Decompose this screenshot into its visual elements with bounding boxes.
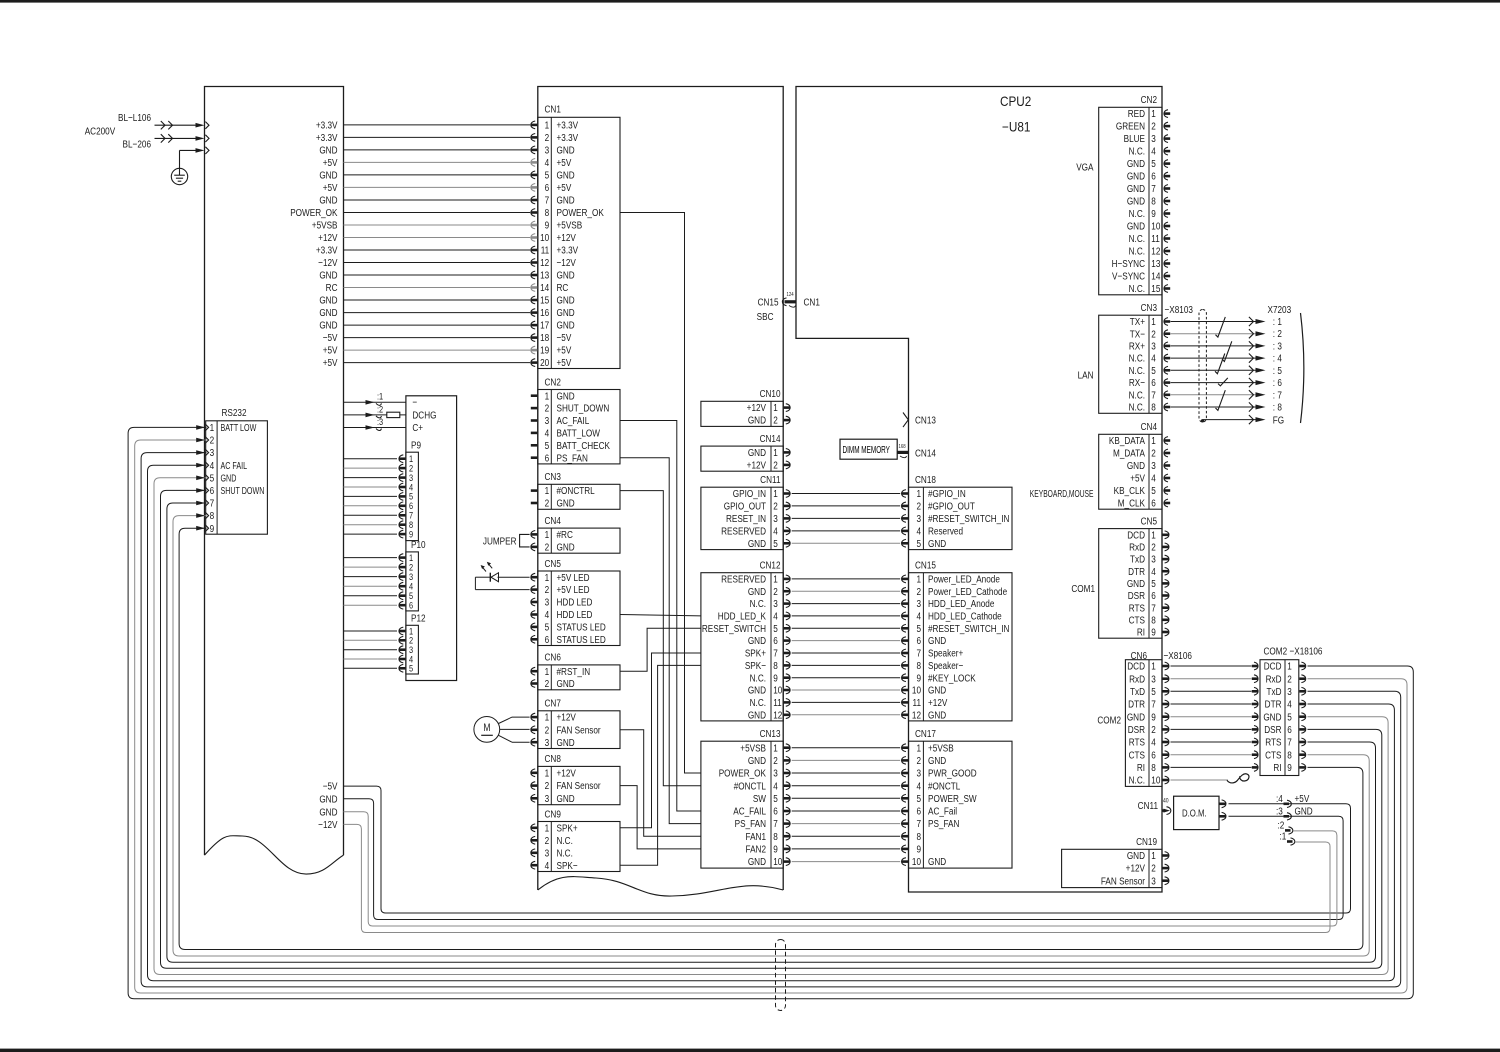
svg-text:9: 9 [916,842,921,854]
svg-text:PWR_GOOD: PWR_GOOD [928,767,977,779]
connector CN12 (harness right, 12-pin) [701,558,790,720]
svg-text:GND: GND [1127,157,1145,169]
svg-text:3: 3 [1151,553,1156,565]
wires CN6 to COM2 X18106 [1171,666,1252,767]
svg-text:N.C.: N.C. [557,846,573,858]
svg-text:CN18: CN18 [915,473,936,485]
svg-text:V−SYNC: V−SYNC [1112,270,1145,282]
svg-text:GPIO_OUT: GPIO_OUT [724,500,766,512]
svg-text:N.C.: N.C. [1129,245,1145,257]
svg-text:GND: GND [748,634,766,646]
svg-text:: 2: : 2 [1273,327,1282,339]
svg-text:2: 2 [773,585,778,597]
svg-text:17: 17 [540,319,549,331]
connector CN5 COM1 (SBC, 9-pin) [1099,514,1169,638]
svg-text:2: 2 [1151,447,1156,459]
svg-text:168: 168 [899,444,906,451]
svg-text:2: 2 [773,754,778,766]
svg-text:−X18106: −X18106 [1290,644,1323,656]
board-to-board link CN15 SBC to CN1 [757,292,820,322]
svg-text:6: 6 [773,634,778,646]
svg-text:X7203: X7203 [1268,303,1292,315]
svg-text:3: 3 [916,597,921,609]
svg-text:FAN Sensor: FAN Sensor [1101,874,1145,886]
svg-text:5: 5 [210,471,215,483]
svg-text:GND: GND [557,319,575,331]
svg-text:6: 6 [545,633,550,645]
svg-text:9: 9 [773,842,778,854]
external pin :1 [1280,829,1295,845]
svg-text:CN15: CN15 [758,295,779,307]
svg-text:CN3: CN3 [1141,301,1157,313]
svg-text:2: 2 [916,754,921,766]
bundle wire RS232 pin9 to X18106 pin9 [179,528,1363,949]
svg-text:3: 3 [1151,459,1156,471]
svg-text:RxD: RxD [1129,540,1145,552]
svg-text:PS_FAN: PS_FAN [557,451,589,463]
svg-text:5: 5 [1287,710,1292,722]
svg-text:POWER_OK: POWER_OK [557,206,605,218]
svg-text:N.C.: N.C. [750,696,766,708]
svg-text:+3.3V: +3.3V [316,244,338,256]
svg-text::1: :1 [377,391,383,402]
svg-text:CN5: CN5 [1141,514,1157,526]
svg-text:−: − [412,396,417,408]
bundle wire RS232 pin8 to X18106 pin8 [173,516,1369,956]
svg-text:8: 8 [773,830,778,842]
svg-text:6: 6 [409,600,413,611]
svg-text:3: 3 [545,736,550,748]
svg-text:11: 11 [1151,232,1159,244]
svg-text:DIMM MEMORY: DIMM MEMORY [843,443,891,455]
svg-text:8: 8 [1151,401,1156,413]
svg-text:+5VSB: +5VSB [740,741,766,753]
svg-text:1: 1 [1287,660,1292,672]
LED symbol on CN5 pins 1-2 [475,562,529,590]
svg-text:5: 5 [773,537,778,549]
bundle wire RS232 pin5 to X18106 pin5 [154,478,1388,975]
svg-text:4: 4 [1151,565,1156,577]
svg-text:: 3: : 3 [1273,339,1282,351]
svg-text:4: 4 [545,156,550,168]
svg-text:124: 124 [787,292,794,299]
svg-text:SPK+: SPK+ [745,647,767,659]
svg-text:1: 1 [916,741,921,753]
svg-text:1: 1 [1151,849,1156,861]
svg-text:4: 4 [1151,145,1156,157]
svg-text:5: 5 [1151,364,1156,376]
svg-text:GND: GND [1127,195,1145,207]
svg-text:4: 4 [210,459,215,471]
svg-text:9: 9 [916,671,921,683]
bundle wire RS232 pin3 to X18106 pin3 [141,453,1401,987]
svg-text:7: 7 [916,817,921,829]
svg-text:10: 10 [912,684,921,696]
svg-text:10: 10 [773,684,782,696]
svg-text:CPU2: CPU2 [1000,94,1031,109]
svg-text:+12V: +12V [557,231,577,243]
svg-text:DSR: DSR [1128,589,1145,601]
svg-text:20: 20 [540,356,549,368]
svg-text:BL−L106: BL−L106 [118,111,151,123]
connector CN8 (harness side, 3-pin fan) [531,752,620,805]
svg-text:1: 1 [545,821,550,833]
fan motor symbol M at CN7 [474,717,530,743]
svg-text:: 7: : 7 [1273,388,1282,400]
svg-text:HDD_LED_Anode: HDD_LED_Anode [928,597,994,609]
connector CN17 (SBC, 10-pin) [902,727,1012,868]
svg-text:CN13: CN13 [915,413,936,425]
svg-text:CN11: CN11 [1138,799,1158,811]
svg-text:6: 6 [1151,589,1156,601]
svg-text:11: 11 [773,696,781,708]
svg-text:: 5: : 5 [1273,364,1282,376]
svg-text:LAN: LAN [1078,368,1094,380]
cable harness box (open bottom with break wave) [538,87,783,897]
svg-text:#RESET_SWITCH_IN: #RESET_SWITCH_IN [928,622,1010,634]
svg-text:M: M [483,722,490,734]
svg-text:GND: GND [319,792,337,804]
svg-text:8: 8 [1151,195,1156,207]
svg-text:16: 16 [540,306,549,318]
svg-text:5: 5 [916,622,921,634]
svg-text:+3.3V: +3.3V [316,131,338,143]
svg-text:3: 3 [773,767,778,779]
svg-text:#ONCTRL: #ONCTRL [557,484,595,496]
wires CN13 to CN17 pins 1-10 [792,748,901,862]
svg-text:AC200V: AC200V [85,125,116,137]
svg-text:19: 19 [540,344,549,356]
connector COM2 -X18106 (external, 9-pin) [1252,644,1323,775]
svg-text:+5VSB: +5VSB [928,741,954,753]
svg-text:SPK+: SPK+ [557,821,579,833]
SBC connector label CN13 with chevron [903,413,936,428]
svg-text:6: 6 [1151,170,1156,182]
svg-text:+12V: +12V [928,696,948,708]
svg-text:RED: RED [1128,107,1145,119]
wires PSU to CN1 pins 1-20 [344,121,538,367]
svg-text:Power_LED_Cathode: Power_LED_Cathode [928,585,1007,597]
power supply unit box (open bottom with break wave) [205,87,344,875]
svg-text:+12V: +12V [318,231,338,243]
svg-text:RX+: RX+ [1129,339,1146,351]
wire CN2 PS_FAN to CN13 pin7 [620,458,701,824]
svg-text:18: 18 [540,331,549,343]
svg-text:Speaker−: Speaker− [928,659,964,671]
svg-text:3: 3 [773,512,778,524]
svg-text:10: 10 [1151,220,1160,232]
svg-text:7: 7 [1151,388,1156,400]
svg-text:1: 1 [773,572,778,584]
svg-text:GND: GND [1127,849,1145,861]
svg-text:5: 5 [545,439,550,451]
twisted pair marks [1215,317,1232,411]
AC input BL-L106 wire with arrows [118,111,209,129]
svg-text:GND: GND [557,294,575,306]
svg-text:DSR: DSR [1264,723,1281,735]
svg-text:RI: RI [1273,761,1281,773]
svg-text:6: 6 [916,634,921,646]
svg-text:STATUS LED: STATUS LED [557,633,606,645]
svg-text:1: 1 [773,401,778,413]
svg-text:CN14: CN14 [760,432,781,444]
svg-text:C+: C+ [412,421,423,433]
connector CN6 (harness side, 2-pin) [531,651,620,690]
svg-text:FAN1: FAN1 [746,830,766,842]
svg-text:1: 1 [1151,660,1156,672]
svg-text:GND: GND [928,855,946,867]
svg-text:D.O.M.: D.O.M. [1182,808,1207,819]
svg-text:1: 1 [545,711,550,723]
connector CN18 (SBC, 5-pin) [902,473,1012,550]
svg-text:CN6: CN6 [545,651,561,663]
svg-text:1: 1 [916,572,921,584]
svg-text:2: 2 [1151,862,1156,874]
svg-text:N.C.: N.C. [557,834,573,846]
svg-text:6: 6 [773,805,778,817]
svg-text:GND: GND [319,319,337,331]
svg-text:GND: GND [748,414,766,426]
svg-text:4: 4 [1151,472,1156,484]
svg-text:GND: GND [1295,804,1313,816]
svg-text:6: 6 [1151,748,1156,760]
wire CN3 #ONCTRL to CN13 pin4 [620,491,701,786]
svg-text:SHUT DOWN: SHUT DOWN [221,485,265,497]
svg-text:SPK−: SPK− [557,859,579,871]
svg-text:5: 5 [545,168,550,180]
svg-text:2: 2 [1151,327,1156,339]
svg-text:SW: SW [753,792,766,804]
svg-text:2: 2 [545,583,550,595]
svg-text:VGA: VGA [1076,160,1094,172]
svg-text:2: 2 [916,585,921,597]
svg-text:GND: GND [748,754,766,766]
svg-text:CN4: CN4 [1141,420,1157,432]
svg-text:+5V: +5V [557,181,572,193]
svg-text:4: 4 [1151,352,1156,364]
svg-text:FG: FG [1273,413,1284,425]
svg-text:2: 2 [916,500,921,512]
svg-text:15: 15 [540,294,549,306]
connector P12 (5-pin) with wires from PSU [344,611,426,674]
LAN cable X8103 to X7203 with shield [1165,303,1292,426]
connector CN4 (harness side, 2-pin) [531,514,620,553]
wires CN11 to CN18 pins 1-5 [792,494,901,544]
svg-text:3: 3 [545,143,550,155]
svg-text:3: 3 [916,512,921,524]
svg-text:+3.3V: +3.3V [316,118,338,130]
svg-text:COM2: COM2 [1097,713,1121,725]
svg-text:2: 2 [773,414,778,426]
svg-text:5: 5 [773,622,778,634]
wire CN7 FAN Sensor to CN13 pin8 FAN1 [620,730,701,836]
PSU aux output labels -5V GND GND -12V [318,780,338,831]
svg-text:4: 4 [916,609,921,621]
svg-text:#ONCTL: #ONCTL [928,779,960,791]
svg-text:CN9: CN9 [545,807,561,819]
svg-text:SPK−: SPK− [745,659,767,671]
svg-text:Reserved: Reserved [928,524,963,536]
svg-text:CN8: CN8 [545,752,561,764]
svg-text:9: 9 [545,219,550,231]
svg-text:7: 7 [773,817,778,829]
svg-text:6: 6 [545,181,550,193]
svg-text:3: 3 [1151,672,1156,684]
svg-text:GND: GND [1127,182,1145,194]
svg-text:+5V: +5V [323,181,338,193]
DIMM to CN14 link with 168 label [897,444,936,459]
D.O.M. output :4 +5V [1276,792,1310,808]
svg-text:10: 10 [540,231,549,243]
svg-text:10: 10 [912,855,921,867]
connector CN7 (harness side, 3-pin fan) [531,697,620,749]
svg-text:GND: GND [557,194,575,206]
svg-text:JUMPER: JUMPER [483,534,517,546]
wire CN5 HDD LED to CN12 pin4 [620,615,701,616]
svg-text:14: 14 [540,281,549,293]
svg-text:−12V: −12V [557,256,577,268]
coiled unconnected wire on CN6 pin 10 [1171,774,1249,783]
svg-text:+5V: +5V [323,356,338,368]
svg-text:P9: P9 [411,438,421,450]
svg-text:GND: GND [557,540,575,552]
svg-text:N.C.: N.C. [1129,145,1145,157]
connector CN1 (harness side, 20-pin) [538,102,620,368]
external pin :2 [1278,818,1293,834]
svg-text:1: 1 [545,484,550,496]
svg-text:+5V: +5V [1295,792,1310,804]
svg-text:GND: GND [1127,170,1145,182]
connector CN2 (harness side, 6-pin) [531,375,620,464]
connector P10 (6-pin) with wires from PSU [344,538,426,611]
svg-text:RxD: RxD [1266,672,1282,684]
svg-text:7: 7 [545,194,550,206]
wire CN2 AC_FAIL to CN13 pin6 [620,421,701,812]
svg-text::3: :3 [1276,804,1283,816]
svg-text:2: 2 [545,779,550,791]
svg-text:GND: GND [748,585,766,597]
bundle wire RS232 pin2 to X18106 pin2 [135,440,1407,993]
svg-text:−5V: −5V [323,780,338,792]
svg-text:DCD: DCD [1127,660,1145,672]
connector CN13 (harness right, 10-pin) [701,727,790,868]
svg-text:: 8: : 8 [1273,400,1282,412]
svg-text:−5V: −5V [557,331,572,343]
svg-text:1: 1 [1151,107,1156,119]
connector RS232 (PSU side, 9-pin) [206,406,268,534]
svg-text:8: 8 [916,830,921,842]
D.O.M. output :3 GND [1276,804,1313,820]
svg-text:#ONCTL: #ONCTL [734,779,766,791]
svg-text:TxD: TxD [1266,685,1281,697]
connector CN5 (harness side, 6-pin LED) [531,557,620,646]
svg-text:8: 8 [773,659,778,671]
svg-text:RTS: RTS [1129,736,1145,748]
svg-text:1: 1 [545,766,550,778]
svg-text:2: 2 [545,677,550,689]
svg-text:+12V: +12V [747,458,767,470]
svg-text:CN4: CN4 [545,514,561,526]
svg-text:8: 8 [1151,761,1156,773]
svg-text:3: 3 [1151,339,1156,351]
svg-text:N.C.: N.C. [750,671,766,683]
svg-text:CN19: CN19 [1136,835,1157,847]
svg-text:9: 9 [1151,710,1156,722]
svg-text:RTS: RTS [1265,736,1281,748]
svg-text:GND: GND [928,708,946,720]
fuse symbol on DCHG :2 wire [387,412,400,417]
svg-text:GND: GND [221,472,237,484]
svg-text:+5V: +5V [557,156,572,168]
svg-text:STATUS LED: STATUS LED [557,620,606,632]
svg-text:7: 7 [210,497,215,509]
svg-text:6: 6 [545,451,550,463]
svg-text::1: :1 [1280,829,1287,841]
DCHG labels and wires :1 :2 :3 [344,391,437,433]
svg-text:CTS: CTS [1129,748,1145,760]
AC input BL-206 wire with arrows [123,134,209,150]
svg-text:FAN Sensor: FAN Sensor [557,723,601,735]
svg-text::4: :4 [1276,792,1283,804]
svg-text:4: 4 [773,609,778,621]
connector CN2 VGA (SBC, 15-pin) [1099,93,1171,295]
wire CN6 #RST_IN to CN12 pin5 [620,628,701,671]
svg-text:2: 2 [773,500,778,512]
svg-text:5: 5 [916,792,921,804]
svg-text:N.C.: N.C. [1129,232,1145,244]
svg-text:9: 9 [1151,626,1156,638]
PSU output labels for CN1 wires [290,118,338,368]
svg-text:N.C.: N.C. [1129,388,1145,400]
svg-text:GND: GND [1263,710,1281,722]
svg-text:13: 13 [540,269,549,281]
svg-text:CN2: CN2 [1141,93,1157,105]
svg-text:GND: GND [928,684,946,696]
svg-text:12: 12 [773,708,782,720]
svg-text:1: 1 [916,487,921,499]
svg-text:#RST_IN: #RST_IN [557,665,591,677]
svg-text:CN7: CN7 [545,697,561,709]
svg-text:AC_Fail: AC_Fail [928,805,957,817]
svg-text:: 4: : 4 [1273,352,1282,364]
svg-text:1: 1 [1151,434,1156,446]
svg-text:4: 4 [1151,736,1156,748]
svg-text:+5VSB: +5VSB [312,219,338,231]
battery connector outer box (DCHG/P9/P10/P12) [406,396,457,681]
svg-text:P10: P10 [411,538,426,550]
svg-text:PS_FAN: PS_FAN [735,817,767,829]
svg-text:HDD_LED_Cathode: HDD_LED_Cathode [928,609,1002,621]
svg-text:3: 3 [545,846,550,858]
svg-text:4: 4 [773,779,778,791]
svg-text:2: 2 [545,723,550,735]
bundle wire RS232 pin1 to X18106 pin1 [128,427,1413,998]
wire PSU GND to external pin :2 [344,812,1337,926]
svg-text:+5V: +5V [1130,472,1145,484]
wire CN9 SPK- to CN12 pin8 [620,665,701,865]
svg-text:+3.3V: +3.3V [557,118,579,130]
svg-text:CN14: CN14 [915,446,936,458]
svg-text:RC: RC [557,281,569,293]
RS232 pin arrows [196,424,208,532]
svg-text:5: 5 [1151,484,1156,496]
svg-text:SBC: SBC [757,310,774,322]
svg-text:KB_CLK: KB_CLK [1114,484,1146,496]
svg-text:−X8103: −X8103 [1165,303,1193,315]
svg-text:Power_LED_Anode: Power_LED_Anode [928,572,1000,584]
svg-text:GND: GND [557,306,575,318]
svg-text:6: 6 [916,805,921,817]
